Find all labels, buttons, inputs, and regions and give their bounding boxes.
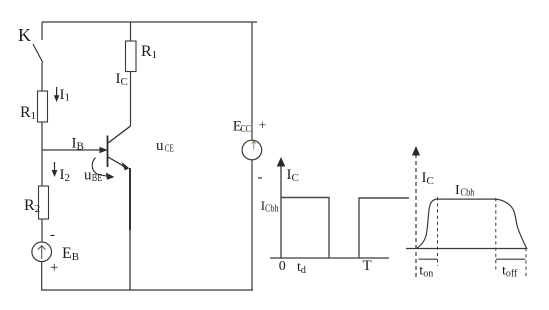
svg-text:R1: R1: [20, 104, 36, 122]
arrow I2: [52, 162, 58, 177]
switch K blade: [33, 44, 43, 63]
emitter vertical lower: [129, 230, 131, 290]
emitter vertical upper: [129, 168, 131, 230]
graph2 dashed vertical ton: [437, 197, 439, 266]
svg-text:td: td: [297, 260, 306, 276]
svg-text:T: T: [363, 258, 372, 274]
graph1 pulse 2: [359, 198, 409, 258]
svg-text:R1: R1: [141, 43, 157, 61]
transistor Q1: [108, 126, 131, 290]
svg-text:IC: IC: [422, 170, 434, 187]
emitter arrowhead: [121, 162, 129, 171]
graph1 y-axis arrowhead: [277, 157, 286, 167]
svg-text:EB: EB: [62, 245, 79, 263]
svg-text:I2: I2: [60, 167, 71, 184]
wire R1 to base node: [41, 122, 43, 150]
svg-text:IB: IB: [72, 136, 84, 153]
svg-text:-: -: [50, 227, 55, 243]
wire R1 to collector: [130, 72, 132, 127]
svg-text:CE: CE: [165, 143, 174, 154]
svg-text:+: +: [259, 119, 267, 134]
svg-text:0: 0: [279, 259, 286, 274]
graph2 dashed y-axis: [415, 154, 417, 280]
svg-text:CC: CC: [241, 124, 252, 135]
svg-text:ton: ton: [419, 264, 433, 280]
wire EB to bottom rail: [41, 262, 43, 290]
svg-text:Cbh: Cbh: [461, 188, 475, 199]
svg-text:toff: toff: [502, 264, 518, 280]
wire K to R1: [41, 63, 43, 91]
wire R2 to EB: [41, 219, 43, 242]
graph1 y-axis: [280, 164, 282, 258]
wire collector stub top: [130, 22, 132, 41]
wire bottom rail: [41, 289, 253, 291]
graph1 x-axis: [270, 257, 389, 259]
svg-text:-: -: [258, 170, 263, 186]
svg-text:u: u: [84, 168, 92, 184]
base arrowhead: [100, 147, 108, 153]
base bar: [107, 136, 109, 168]
svg-text:I1: I1: [60, 87, 71, 104]
collector diagonal: [108, 126, 131, 143]
arrow I1: [54, 87, 60, 102]
wire ECC to bottom rail: [251, 160, 253, 290]
wire switch stub: [41, 22, 43, 40]
svg-text:IC: IC: [116, 71, 128, 88]
graph1 pulse 1: [281, 198, 329, 259]
graph2 dashed vertical fall start: [495, 198, 497, 270]
svg-text:BE: BE: [92, 173, 103, 184]
graph2 curve: [417, 199, 527, 248]
wire ECC branch top: [251, 22, 253, 140]
source EB circle: [32, 242, 52, 262]
graph2 toff dimension line: [496, 258, 525, 260]
EB source arrow: [38, 246, 46, 259]
wire base node down to R2: [41, 150, 43, 186]
resistor R2: [39, 186, 49, 219]
graph2 x-axis: [406, 248, 528, 250]
resistor R1 (base): [38, 91, 48, 122]
svg-text:K: K: [18, 25, 31, 45]
uBE curved arrow: [92, 158, 114, 180]
source ECC circle: [242, 140, 262, 160]
resistor R1 (collector): [126, 41, 137, 72]
graph2 ton dimension line: [419, 258, 437, 260]
graph2 dashed vertical fall end: [525, 248, 527, 277]
svg-text:IC: IC: [287, 167, 299, 184]
svg-text:u: u: [156, 138, 164, 154]
ECC source arrow: [252, 141, 256, 150]
svg-text:I: I: [455, 183, 460, 198]
svg-text:+: +: [50, 260, 58, 276]
wire base horizontal: [42, 149, 102, 151]
wire top rail: [42, 21, 257, 23]
svg-text:Cbh: Cbh: [265, 204, 279, 215]
graph2 y-axis arrowhead: [412, 146, 420, 156]
emitter diagonal: [108, 157, 126, 168]
svg-text:R2: R2: [24, 197, 40, 215]
